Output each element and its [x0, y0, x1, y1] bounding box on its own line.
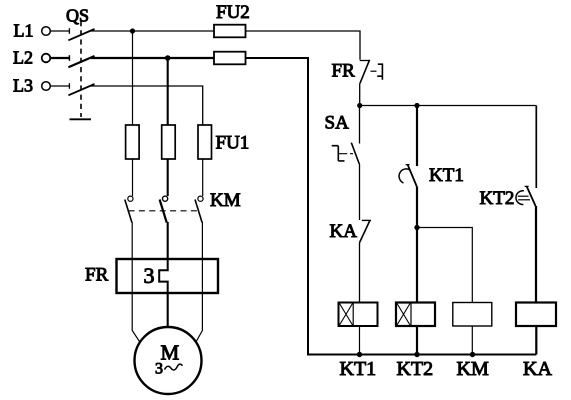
wire branch3 fuse to KM: [202, 159, 204, 196]
coil KA (relay): [516, 303, 556, 327]
wire motor branch 2 upper: [167, 58, 169, 125]
switch SA manual operator: [332, 146, 345, 161]
wire branch2 KM to FR box: [167, 222, 169, 259]
junction dot middle branch: [414, 225, 419, 230]
wire SA to KA contact: [359, 164, 361, 220]
fuse FU2 (upper, line L1): [214, 25, 246, 38]
wire branch2 FR to motor: [167, 293, 169, 328]
switch SA operator linkage dashes: [338, 153, 353, 155]
wire branch1 FR to motor: [132, 293, 140, 342]
KT2 delay contact arc: [516, 191, 530, 205]
KM main contact 3 blade: [195, 200, 202, 223]
switch SA blade: [351, 143, 359, 164]
junction dot L1/motor branch: [130, 28, 135, 33]
svg-text:SA: SA: [325, 113, 350, 134]
label KM (coil): [457, 358, 489, 380]
svg-text:L3: L3: [13, 76, 33, 96]
KM main contact 2 fixed circle: [163, 196, 168, 201]
svg-text:KT1: KT1: [429, 165, 464, 186]
wire coil KA to bottom rail: [535, 326, 537, 355]
label KT2 (coil): [397, 358, 434, 380]
motor M circle: [135, 327, 202, 394]
svg-text:FR: FR: [332, 61, 356, 82]
value label 3 (three heater elements): [144, 263, 155, 288]
FR NC contact blade: [360, 60, 370, 84]
KA NO contact top tick: [362, 219, 371, 221]
KM main contact 3 fixed circle: [198, 196, 203, 201]
label QS: [66, 6, 89, 26]
fuse FU1 c: [198, 125, 212, 159]
QS pole 3 blade: [68, 84, 94, 95]
svg-text:KT2: KT2: [480, 188, 515, 209]
wire KA contact to coil KT1: [359, 243, 361, 303]
label KA (coil): [523, 358, 552, 380]
wire node to SA: [359, 106, 361, 144]
svg-text:3: 3: [144, 263, 155, 288]
KM linkage dashed line: [129, 210, 199, 212]
node L1 label: [14, 21, 34, 41]
svg-text:FU1: FU1: [216, 133, 250, 154]
thermal relay FR box: [117, 259, 219, 293]
wire motor branch 1 upper: [132, 31, 134, 125]
QS pole 2 blade: [68, 56, 94, 67]
motor letter M: [161, 341, 180, 365]
QS handle bar: [70, 118, 92, 120]
label KM (main contacts): [210, 190, 241, 211]
svg-text:L1: L1: [14, 21, 34, 41]
KM main contact 1 blade: [125, 200, 132, 223]
junction dot bottom rail 3: [470, 352, 475, 357]
node L3 label: [13, 76, 33, 96]
svg-text:FU2: FU2: [216, 2, 250, 23]
FR NC contact fixed tick: [360, 60, 370, 62]
svg-text:3: 3: [155, 361, 163, 378]
label FU2: [216, 2, 250, 23]
coil KM (contactor): [453, 303, 492, 327]
fuse FU1 b: [162, 125, 176, 159]
junction dot control node middle: [414, 103, 419, 108]
wire branch1 KM to FR box: [131, 222, 133, 259]
motor label 3~: [155, 361, 183, 378]
svg-text:L2: L2: [13, 48, 33, 68]
svg-text:QS: QS: [66, 6, 89, 26]
coil KT2 (time relay): [396, 303, 435, 327]
KT1 delay contact blade cap: [406, 164, 410, 166]
junction dot bottom rail 2: [414, 352, 419, 357]
wire branch to KM coil: [417, 228, 472, 303]
KT2 delay contact blade cap: [525, 185, 529, 187]
QS pole 1 blade: [68, 29, 94, 40]
KM main contact 2 blade: [160, 200, 167, 223]
svg-text:KM: KM: [457, 358, 489, 380]
KM main contact 1 fixed circle: [128, 196, 133, 201]
svg-text:FR: FR: [85, 265, 109, 286]
wire L2 from FU2 down left rail to bottom: [246, 58, 537, 355]
FR NC contact release linkage dash: [371, 70, 377, 72]
node L2 label: [13, 48, 33, 68]
wire L1 from FU2 to control column corner: [246, 31, 361, 60]
label KT1 (contact): [429, 165, 464, 186]
QS pole 3 fixed contact tick: [68, 83, 70, 89]
svg-text:KM: KM: [210, 190, 241, 211]
wire branch2 fuse to KM: [167, 159, 169, 196]
wire branch1 fuse to KM: [132, 159, 134, 196]
svg-text:KA: KA: [330, 221, 358, 242]
wire branch3 FR to motor: [196, 293, 202, 342]
wire L2 lead to QS: [50, 57, 69, 59]
terminal circle L3: [42, 82, 51, 91]
wire L3 lead to QS: [50, 85, 69, 87]
label FR (control contact): [332, 61, 356, 82]
FR NC contact release bracket: [377, 63, 382, 79]
junction dot L2/motor branch: [165, 55, 171, 61]
QS linkage dashed line: [80, 21, 82, 117]
label KT1 (coil): [340, 358, 377, 380]
wire node to KT1 contact: [416, 106, 418, 167]
KA NO contact blade: [360, 221, 370, 243]
wire L3 to motor branch corner: [91, 86, 203, 125]
FR heater element jog: [159, 259, 168, 293]
svg-text:M: M: [161, 341, 180, 365]
svg-text:KA: KA: [523, 358, 552, 380]
wire branch3 KM to FR box: [201, 222, 203, 259]
svg-text:KT2: KT2: [397, 358, 434, 380]
KT2 delay contact blade: [527, 187, 536, 206]
wire KT2 contact to coil KA: [535, 206, 537, 303]
QS pole 1 fixed contact tick: [68, 28, 70, 34]
wire coil KT1 to bottom rail: [359, 326, 361, 355]
wire KT1 contact to coil KT2: [416, 187, 418, 303]
wire FR contact to node: [359, 84, 361, 106]
label FU1: [216, 133, 250, 154]
wire L1 lead to QS: [50, 30, 69, 32]
wire branch1 inside FR box: [131, 259, 133, 293]
coil KT1 (time relay): [339, 303, 378, 327]
wire L1 to FU2: [91, 30, 215, 32]
wire coil KT2 to bottom rail: [416, 326, 418, 355]
label KA (contact): [330, 221, 358, 242]
fuse FU1 a: [126, 125, 140, 159]
fuse FU2 (lower, line L2): [214, 52, 246, 65]
label KT2 (contact): [480, 188, 515, 209]
terminal circle L1: [42, 27, 51, 36]
wire top bus corner down to KT2 contact: [535, 106, 537, 189]
KT1 delay contact blade: [408, 165, 417, 187]
wire coil KM to bottom rail: [471, 326, 473, 355]
svg-text:KT1: KT1: [340, 358, 377, 380]
wire control top bus: [360, 105, 537, 107]
wire L2 to FU2: [91, 57, 215, 59]
label FR (overload element): [85, 265, 109, 286]
junction dot bottom rail 1: [357, 352, 362, 357]
wire branch3 inside FR box: [201, 259, 203, 293]
terminal circle L2: [42, 54, 51, 63]
label SA: [325, 113, 350, 134]
junction dot control node left: [357, 103, 362, 108]
KT1 delay contact arc: [399, 169, 410, 183]
QS pole 2 fixed contact tick: [68, 55, 70, 61]
